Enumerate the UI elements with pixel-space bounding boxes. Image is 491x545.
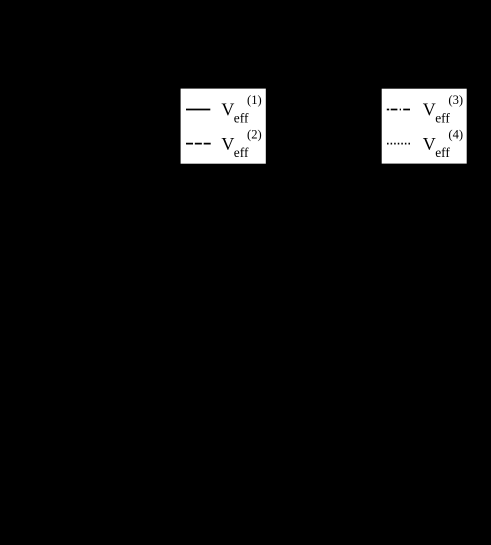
legend key: dashed line for V_eff^(2) [186,143,211,145]
svg-text:V: V [221,134,234,154]
legend key: dotted line for V_eff^(4) [387,143,410,145]
legend label V_eff^(4) [423,128,463,161]
legend box 1 (left) [181,89,266,164]
svg-text:(1): (1) [247,93,262,107]
svg-text:eff: eff [435,145,450,160]
legend label V_eff^(3) [423,93,463,125]
legend key: dash-dot line for V_eff^(3) [387,109,410,111]
svg-text:eff: eff [234,111,249,126]
svg-text:V: V [423,134,436,154]
svg-text:V: V [423,100,436,120]
svg-text:V: V [221,100,234,120]
svg-text:(4): (4) [448,128,463,142]
legend label V_eff^(1) [221,93,261,125]
legend label V_eff^(2) [221,128,261,161]
legend key: solid line for V_eff^(1) [186,109,210,111]
svg-text:eff: eff [234,145,249,160]
svg-text:(2): (2) [247,128,262,142]
svg-text:eff: eff [435,111,450,126]
svg-text:(3): (3) [448,93,463,107]
legend box 2 (right) [382,89,467,164]
